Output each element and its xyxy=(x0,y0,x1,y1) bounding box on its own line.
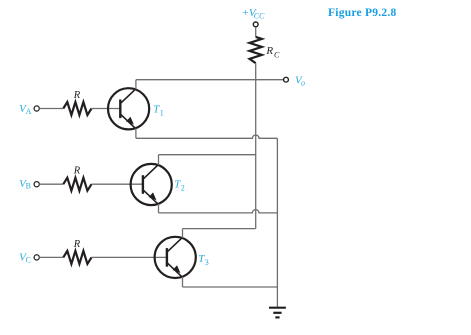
wire R to T3 base xyxy=(92,256,167,258)
wire T2 emitter line with hop over main rail xyxy=(159,210,278,213)
resistor R (input C) xyxy=(63,251,91,264)
wire Vo output line xyxy=(136,79,284,81)
svg-text:Figure P9.2.8: Figure P9.2.8 xyxy=(328,7,397,19)
wire T3 collector up xyxy=(182,229,184,238)
wire VB to R xyxy=(39,183,63,185)
wire VC to R xyxy=(39,256,63,258)
label T3 xyxy=(198,253,209,267)
label T1 xyxy=(153,103,164,117)
svg-text:R: R xyxy=(73,239,81,250)
wire R to T2 base xyxy=(92,183,143,185)
resistor R (input B) xyxy=(63,178,91,191)
svg-text:C: C xyxy=(274,51,280,60)
wire T1 collector up to Vo line xyxy=(135,80,137,90)
terminal +VCC xyxy=(253,22,258,27)
terminal Vo xyxy=(284,77,289,82)
wire R to T1 base xyxy=(92,108,121,110)
terminal VC xyxy=(34,255,39,260)
wire T1 emitter down xyxy=(135,128,137,138)
svg-text:R: R xyxy=(73,166,81,177)
svg-text:B: B xyxy=(26,182,31,191)
wire T2 collector line to main rail xyxy=(159,154,256,156)
label RC xyxy=(265,45,280,59)
node +VCC label xyxy=(242,7,266,21)
terminal VA xyxy=(34,106,39,111)
wire T2 emitter down xyxy=(158,204,160,213)
terminal VB xyxy=(34,182,39,187)
ground xyxy=(269,308,286,318)
node VB label xyxy=(19,178,31,191)
node VA label xyxy=(19,103,32,116)
svg-text:R: R xyxy=(73,90,81,101)
wire T3 emitter line to right rail xyxy=(183,286,278,288)
transistor T1 xyxy=(108,88,149,129)
svg-text:R: R xyxy=(265,45,273,57)
node Vo label xyxy=(295,74,305,87)
resistor RC xyxy=(250,37,262,63)
wire T3 emitter down xyxy=(182,277,184,287)
transistor T3 xyxy=(155,237,196,278)
svg-text:1: 1 xyxy=(160,108,164,117)
resistor R (input A) xyxy=(63,102,91,115)
wire main rail (RC down to T3 collector line) xyxy=(255,63,257,229)
svg-text:o: o xyxy=(301,79,305,88)
wire T3 collector line to main rail xyxy=(183,228,256,230)
node VC label xyxy=(19,252,31,265)
wire right rail (emitters down to ground) xyxy=(276,138,278,307)
wire VCC terminal to RC xyxy=(255,27,257,37)
svg-text:A: A xyxy=(26,107,32,116)
svg-text:CC: CC xyxy=(254,11,265,20)
wire T1 emitter line with hop over main rail xyxy=(136,135,278,138)
wire VA to R xyxy=(39,108,63,110)
svg-text:C: C xyxy=(26,255,31,264)
svg-text:3: 3 xyxy=(205,258,209,267)
label T2 xyxy=(174,179,185,193)
svg-text:2: 2 xyxy=(181,183,185,192)
wire T2 collector up xyxy=(158,155,160,165)
transistor T2 xyxy=(131,164,172,205)
